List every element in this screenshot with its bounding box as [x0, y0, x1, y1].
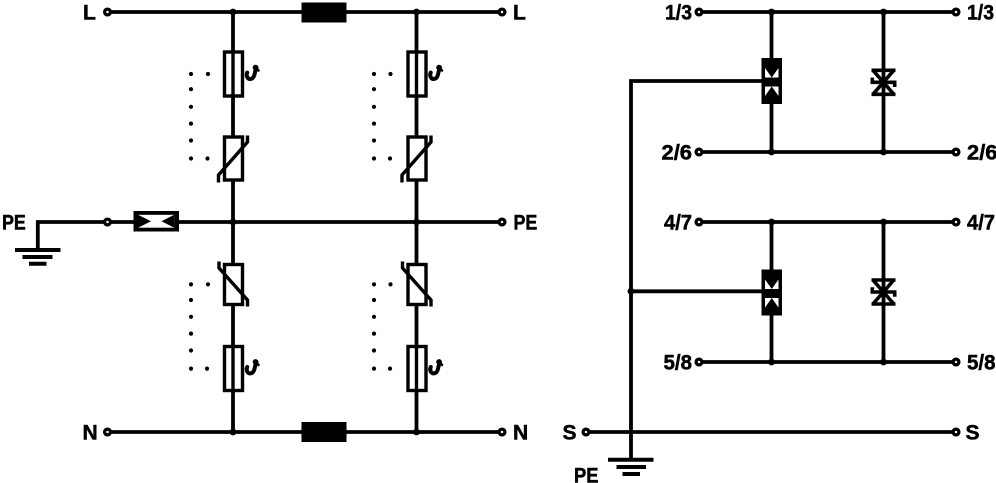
svg-text:1/3: 1/3 [665, 2, 692, 25]
disconnector link dots branch 2 upper [372, 72, 393, 161]
ground symbol right PE [608, 460, 654, 474]
thermal trip mark fuse F2 [247, 359, 259, 373]
svg-text:S: S [562, 422, 576, 445]
thermal trip mark fuse F1 [247, 65, 259, 79]
varistor RV2 lower branch 1 [219, 262, 248, 307]
wire N line [111, 430, 499, 434]
svg-text:L: L [83, 2, 96, 25]
wire 5/8 line [703, 360, 953, 364]
terminal N left [105, 429, 111, 435]
gas discharge tube F0 on PE line [134, 211, 180, 232]
inductor L1 (impedance, L line) [302, 3, 347, 23]
terminal 1/3 right [953, 9, 959, 15]
svg-text:5/8: 5/8 [967, 352, 996, 375]
varistor RV4 lower branch 2 [403, 262, 432, 307]
wire GDT branch lower [770, 222, 774, 362]
varistor RV3 upper branch 2 [402, 136, 431, 183]
suppressor diode D2 lower [872, 280, 896, 304]
wire earth feed lower stub [631, 289, 762, 293]
svg-text:PE: PE [514, 212, 538, 235]
wire PE line right segment [179, 220, 498, 224]
junction dots left circuit [230, 9, 420, 436]
wire GDT branch upper [770, 12, 774, 152]
varistor RV1 upper branch 1 [219, 136, 248, 183]
svg-text:S: S [966, 422, 980, 445]
ground symbol left PE [15, 250, 61, 264]
fuse F3 upper branch 2 [408, 52, 426, 96]
terminal N right [499, 429, 505, 435]
svg-text:1/3: 1/3 [967, 2, 994, 25]
disconnector link dots branch 1 lower [189, 282, 210, 370]
svg-text:PE: PE [574, 465, 599, 483]
terminal 4/7 left [696, 219, 702, 225]
svg-text:5/8: 5/8 [664, 352, 693, 375]
inductor L2 (impedance, N line) [302, 422, 347, 442]
thermal trip mark fuse F3 [430, 65, 442, 79]
svg-text:N: N [513, 422, 528, 445]
wire L line [110, 10, 498, 14]
terminal S right [953, 429, 959, 435]
wire 1/3 line [703, 10, 953, 14]
gas discharge tube F6 lower [762, 270, 783, 316]
svg-text:4/7: 4/7 [664, 212, 692, 235]
gas discharge tube F5 upper [762, 58, 783, 104]
disconnector link dots branch 2 lower [372, 282, 393, 370]
wire 4/7 line [703, 220, 953, 224]
thermal trip mark fuse F4 [430, 359, 442, 373]
wire PE ground stub [36, 222, 40, 250]
fuse F2 lower branch 1 [225, 347, 243, 391]
wire TVS branch lower [882, 222, 886, 362]
fuse F4 lower branch 2 [408, 347, 426, 391]
suppressor diode D1 upper [872, 70, 896, 94]
wire PE line left segment [36, 220, 134, 224]
disconnector link dots branch 1 upper [189, 72, 210, 161]
wire S line [590, 430, 953, 434]
terminal 5/8 left [696, 359, 702, 365]
terminal S left [583, 429, 589, 435]
terminal PE right [499, 219, 505, 225]
terminal 1/3 left [696, 9, 702, 15]
terminal 4/7 right [953, 219, 959, 225]
terminal 5/8 right [953, 359, 959, 365]
wire earth feed vertical [631, 81, 762, 458]
terminal 2/6 right [953, 149, 959, 155]
junction dots right circuit [628, 9, 887, 366]
svg-text:PE: PE [2, 212, 26, 235]
svg-text:L: L [513, 2, 526, 25]
wire branch 1 vertical [231, 12, 235, 432]
terminal 2/6 left [696, 149, 702, 155]
wire branch 2 vertical [415, 12, 419, 432]
fuse F1 upper branch 1 [225, 52, 243, 96]
svg-text:N: N [83, 422, 98, 445]
wire TVS branch upper [882, 12, 886, 152]
svg-text:4/7: 4/7 [967, 212, 995, 235]
terminal PE mid [105, 219, 111, 225]
svg-text:2/6: 2/6 [967, 142, 996, 165]
terminal L left [105, 9, 111, 15]
svg-text:2/6: 2/6 [662, 142, 693, 165]
wire 2/6 line [703, 150, 953, 154]
terminal L right [499, 9, 505, 15]
